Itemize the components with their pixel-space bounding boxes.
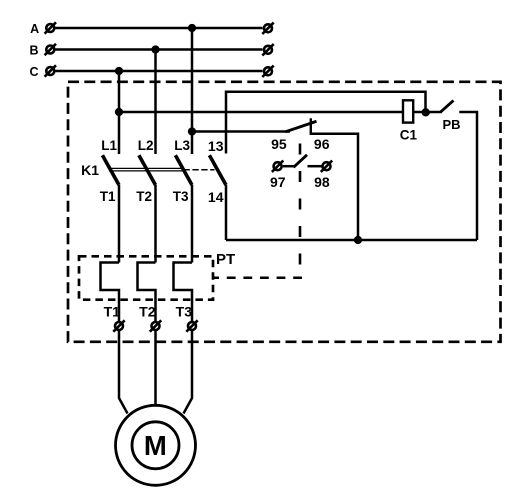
wire T3 down <box>191 185 194 263</box>
svg-text:PT: PT <box>216 251 235 268</box>
junction 96 drop on return <box>354 236 362 244</box>
pushbutton PB blade <box>441 100 454 111</box>
contact K1 pole 3 blade <box>175 155 192 185</box>
linkage K1 double bar <box>109 168 184 171</box>
terminal B left <box>45 44 56 55</box>
svg-text:13: 13 <box>208 138 224 154</box>
wire T2 down <box>154 185 157 263</box>
svg-text:T1: T1 <box>104 303 121 319</box>
svg-text:M: M <box>144 430 167 461</box>
wire 96 to drop <box>311 134 358 240</box>
svg-text:B: B <box>29 44 38 58</box>
wire T1 down <box>118 185 121 263</box>
wire 97 stub <box>283 165 294 168</box>
linkage K1 to aux dashed <box>184 169 215 171</box>
junction A to L3 drop <box>188 24 196 32</box>
svg-text:L2: L2 <box>138 138 154 153</box>
wire phase A <box>56 27 263 30</box>
svg-text:96: 96 <box>314 136 330 152</box>
wire 14 down <box>225 185 228 240</box>
heater element phase 2 <box>138 263 156 322</box>
svg-text:A: A <box>30 22 39 36</box>
wire PB right <box>459 112 477 240</box>
svg-text:T2: T2 <box>139 303 156 319</box>
svg-text:L3: L3 <box>174 138 190 153</box>
wire L1 drop <box>118 71 121 154</box>
terminal 98 <box>321 161 332 172</box>
svg-text:T3: T3 <box>176 303 193 319</box>
wire aux contact 13 top <box>226 92 426 154</box>
wire motor lead 2 <box>154 331 157 405</box>
terminal T2 <box>150 320 161 331</box>
terminal C left <box>45 65 56 76</box>
terminal B right <box>262 44 273 55</box>
wire motor lead 1 <box>119 331 128 414</box>
svg-text:97: 97 <box>270 174 286 190</box>
svg-text:95: 95 <box>271 136 287 152</box>
wire phase C <box>56 70 263 73</box>
motor M inner circle <box>132 422 179 469</box>
svg-text:T2: T2 <box>136 189 152 204</box>
svg-text:14: 14 <box>208 189 224 205</box>
overload relay PT box <box>79 256 213 299</box>
contact 96 fixed terminal <box>310 118 312 135</box>
contact K1 aux 13-14 blade <box>209 155 226 185</box>
junction control tap on L1 <box>115 108 123 116</box>
wire 98 stub <box>308 165 322 168</box>
contact K1 pole 2 blade <box>139 155 156 185</box>
terminal A right <box>262 23 273 34</box>
junction coil-PB-13 <box>422 108 430 116</box>
wire L2 drop <box>154 50 157 155</box>
coil C1 <box>403 100 413 122</box>
linkage overload to PT dashed <box>213 276 302 279</box>
contact K1 pole 1 blade <box>102 155 119 185</box>
wire motor lead 3 <box>184 331 193 414</box>
wire coil feed <box>119 111 402 114</box>
wire overload 95 feed <box>192 130 290 133</box>
heater element phase 3 <box>174 263 193 322</box>
svg-text:98: 98 <box>314 174 330 190</box>
svg-text:PB: PB <box>442 117 460 132</box>
junction C to L1 drop <box>115 67 123 75</box>
enclosure dashed box <box>68 82 501 342</box>
svg-text:T1: T1 <box>100 189 116 204</box>
svg-text:L1: L1 <box>101 138 117 153</box>
contact 95-96 blade <box>286 121 317 132</box>
svg-text:C1: C1 <box>400 128 418 143</box>
terminal T3 <box>186 320 197 331</box>
heater element phase 1 <box>101 263 120 322</box>
linkage overload dashed <box>299 144 302 279</box>
svg-text:C: C <box>29 65 38 79</box>
wire phase B <box>56 48 263 51</box>
terminal T1 <box>113 320 124 331</box>
wire L3 drop <box>191 28 194 154</box>
terminal 97 <box>272 161 283 172</box>
svg-text:K1: K1 <box>81 162 99 178</box>
terminal C right <box>262 66 273 77</box>
contact 97-98 blade <box>294 155 308 168</box>
junction control tap on L3 <box>188 127 196 135</box>
terminal A left <box>45 22 56 33</box>
motor M outer circle <box>116 405 196 485</box>
wire coil to junction <box>414 111 443 114</box>
wire control return <box>226 239 477 242</box>
svg-text:T3: T3 <box>173 189 189 204</box>
junction B to L2 drop <box>151 45 159 53</box>
